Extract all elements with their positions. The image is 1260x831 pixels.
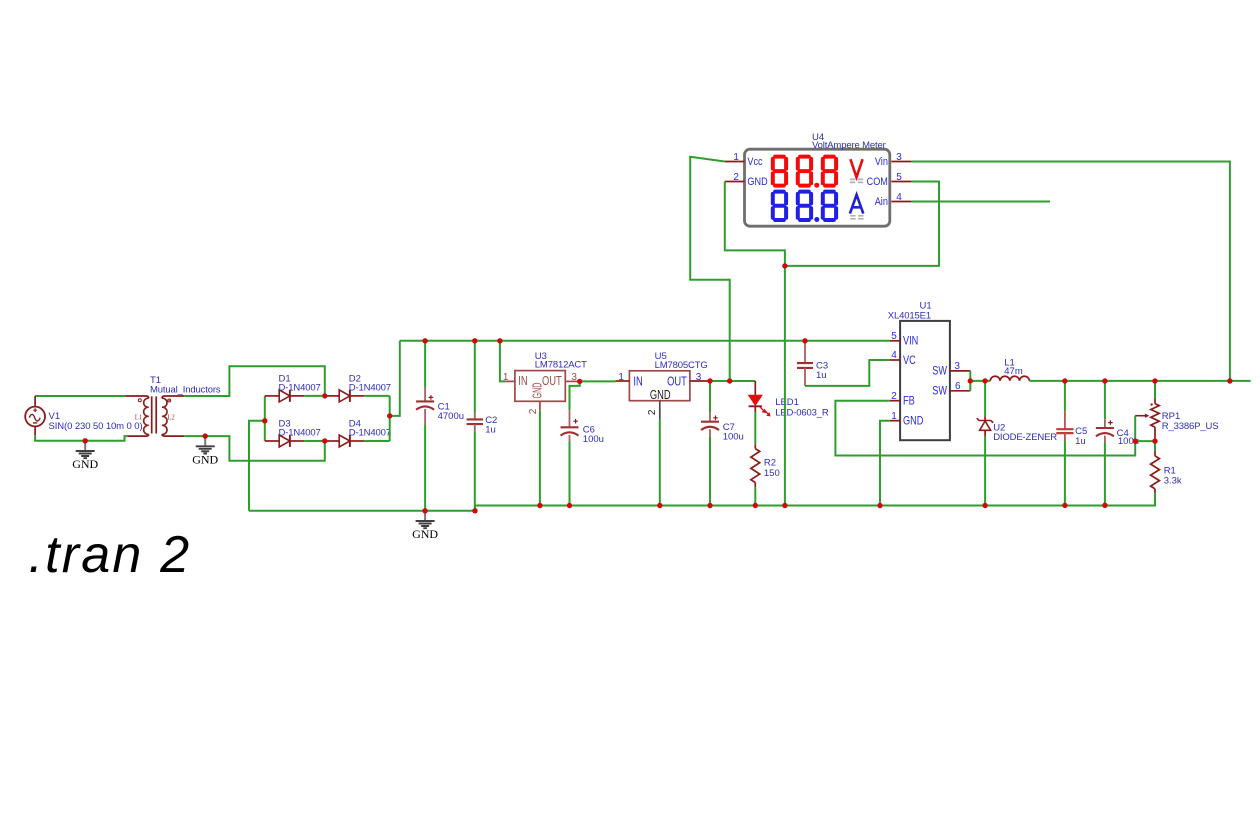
T1 secondary coil L2 [162,396,184,398]
svg-text:2: 2 [733,172,739,183]
junction at 579.7,381.4 [577,379,582,384]
wire T1 secondary bottom to bridge [184,436,324,461]
junction at 539.9,505.5 [537,503,542,508]
wire T1 secondary top to bridge [184,366,324,396]
svg-text:DIODE-ZENER: DIODE-ZENER [993,432,1057,443]
wire bridge minus to bottom rail [249,421,265,511]
svg-text:OUT: OUT [667,375,687,389]
svg-text:2: 2 [528,408,539,414]
wire C3 to U1 VC [805,360,890,386]
capacitor C7 100u [709,381,711,413]
junction at 425.1,340.8 [422,338,427,343]
converter U1 XL4015E1 box [900,321,950,440]
svg-text:COM: COM [867,176,888,188]
wire LED to R2 [754,413,756,445]
T1 phase dots [138,399,141,402]
wire V1 top to T1 primary [35,395,125,397]
svg-text:SW: SW [932,366,947,378]
svg-text:SW: SW [932,386,947,398]
svg-text:5: 5 [896,172,902,183]
svg-text:2: 2 [647,409,658,415]
svg-text:Vcc: Vcc [747,156,762,168]
svg-text:FB: FB [903,396,915,408]
junction at 805.0,340.8 [802,338,807,343]
svg-text:47m: 47m [1004,366,1023,377]
svg-text:R2: R2 [764,457,776,468]
svg-text:3: 3 [571,372,577,383]
junction at 324.8,441.0 [322,438,327,443]
svg-text:100u: 100u [723,432,744,443]
svg-text:GND: GND [192,452,218,466]
svg-text:IN: IN [633,375,642,389]
svg-text:4: 4 [891,350,897,361]
regulator U3 LM7812ACT [515,371,565,402]
svg-text:LED-0603_R: LED-0603_R [775,408,829,419]
svg-text:R_3386P_US: R_3386P_US [1162,421,1219,432]
svg-text:D-1N4007: D-1N4007 [349,428,391,439]
U1 pin 4 VC [890,359,900,361]
junction at 1104.9,381.0 [1102,378,1107,383]
U4 pin 2 GND [725,181,745,183]
wire U4 Ain stub [912,201,1050,203]
U4 pin 1 Vcc [725,161,745,163]
svg-text:GND: GND [903,416,924,428]
svg-text:1u: 1u [816,370,827,381]
svg-text:L1: L1 [135,415,143,422]
svg-text:L2: L2 [167,415,175,422]
ground GND (V1) [84,441,86,451]
svg-text:XL4015E1: XL4015E1 [888,310,931,321]
svg-text:IN: IN [518,375,527,389]
resistor R1 3.3k [1154,441,1156,451]
junction at 880.0,505.5 [877,503,882,508]
svg-text:VoltAmpere Meter: VoltAmpere Meter [812,140,886,151]
junction at 710.0,381.0 [707,378,712,383]
capacitor C2 1u [474,341,476,413]
U4 blue display 88.8 [773,192,786,220]
svg-text:Ain: Ain [875,196,888,208]
junction at 784.9,265.9 [782,263,787,268]
svg-text:GND: GND [747,176,767,188]
wire wiper to RP1 bottom [1135,440,1155,442]
junction at 85.2,440.8 [83,438,88,443]
svg-text:2: 2 [891,391,897,402]
inductor L1 47m [990,376,1029,381]
svg-text:5: 5 [891,331,897,342]
wire main DC rail [400,340,890,342]
meter U4 VoltAmpere Meter box [745,149,890,226]
ground GND (T1) [204,436,206,446]
junction at 324.8,395.9 [322,393,327,398]
potentiometer RP1 R_3386P_US [1154,381,1156,399]
junction at 205.2,436.1 [203,433,208,438]
junction at 729.7,381.0 [727,378,732,383]
svg-text:Vin: Vin [875,156,888,168]
wire rail jog [474,506,476,511]
svg-text:1u: 1u [1075,436,1086,447]
wire V1 bottom [35,435,128,441]
wire U3 out to U5 in [580,380,616,382]
svg-text:150: 150 [764,468,780,479]
svg-text:LM7812ACT: LM7812ACT [535,360,587,371]
svg-text:LED1: LED1 [775,397,799,408]
svg-text:6: 6 [955,381,961,392]
svg-text:3.3k: 3.3k [1164,475,1182,486]
svg-text:1: 1 [891,411,897,422]
wire bottom ground rail left [249,510,475,512]
junction at 474.8,340.8 [472,338,477,343]
resistor R2 150 [754,444,756,448]
svg-text:VIN: VIN [903,336,918,348]
U4 A symbol [850,195,863,214]
junction at 1104.9,505.3 [1102,503,1107,508]
ground GND (C1) [424,511,426,521]
svg-text:1: 1 [733,152,739,163]
wire U3 ground pin [539,411,541,506]
junction at 389.7,415.9 [387,413,392,418]
capacitor C5 1u [1064,381,1066,411]
junction at 425.1,510.8 [422,508,427,513]
diode D2 D-1N4007 [325,395,339,397]
U1 pin 1 GND [890,420,900,422]
svg-text:3: 3 [696,372,702,383]
svg-text:VC: VC [903,355,916,367]
bridge left vertical wire [264,396,266,441]
junction at 970.3,380.9 [968,378,973,383]
junction at 755.3,505.5 [753,503,758,508]
wire U1 GND to rail [880,421,890,506]
U4 pin 3 Vin [891,161,911,163]
wire L1 to output rail [1029,380,1250,382]
svg-text:1: 1 [503,372,509,383]
svg-text:4700u: 4700u [438,411,464,422]
wire rail to U3 input [500,341,505,382]
U4 red display 88.8 [773,157,786,186]
U1 pin 2 FB [890,400,900,402]
junction at 475.0,510.8 [472,508,477,513]
junction at 264.8,420.8 [262,418,267,423]
svg-text:3: 3 [896,152,902,163]
wire SW to L1 [970,380,990,382]
svg-text:1: 1 [618,372,624,383]
U4 pin 4 Ain [891,201,911,203]
junction at 1135.2,441.1 [1133,438,1138,443]
svg-text:.tran 2: .tran 2 [29,526,192,584]
svg-text:100u: 100u [583,434,604,445]
junction at 1064.9,505.4 [1062,503,1067,508]
wire SW pins tie [969,371,971,391]
wire U4 COM [785,182,939,266]
svg-text:LM7805CTG: LM7805CTG [655,360,708,371]
svg-text:4: 4 [896,192,902,203]
junction at 659.8,505.5 [657,503,662,508]
U1 pin 5 VIN [890,340,900,342]
svg-text:GND: GND [532,382,546,398]
svg-text:GND: GND [412,527,438,541]
svg-text:GND: GND [72,457,98,471]
junction at 710.0,505.5 [707,503,712,508]
svg-text:D-1N4007: D-1N4007 [349,383,391,394]
U4 pin 5 COM [891,181,911,183]
U1 pin 3 SW [950,370,970,372]
RP1 wiper arrow [1135,415,1145,417]
svg-text:D-1N4007: D-1N4007 [279,383,321,394]
junction at 985.1,380.9 [982,378,987,383]
svg-text:3: 3 [954,361,960,372]
wire U5 ground pin [659,420,661,506]
regulator U5 LM7805CTG [629,371,690,401]
capacitor C4 100u [1104,381,1106,419]
T1 core [152,396,157,433]
zener diode U2 DIODE-ZENER [984,381,986,417]
capacitor C6 100u [570,381,580,410]
junction at 499.9,340.8 [497,338,502,343]
wire U4 GND down [725,182,785,506]
svg-text:1u: 1u [485,424,496,435]
svg-text:Mutual_Inductors: Mutual_Inductors [150,385,221,396]
wire bridge plus output [390,341,400,441]
diode D3 D-1N4007 [265,440,279,442]
junction at 985.1,505.5 [982,503,987,508]
svg-text:D-1N4007: D-1N4007 [279,428,321,439]
U1 pin 6 SW [950,390,970,392]
svg-text:GND: GND [650,389,671,403]
junction at 1064.9,381.0 [1062,378,1067,383]
LED1 emission arrows [759,406,768,414]
wire bottom ground rail right [475,504,1155,506]
wire U4 Vcc to +5V node [690,157,730,381]
LED LED1 [754,381,756,395]
diode D4 D-1N4007 [325,440,339,442]
capacitor C3 1u [804,341,806,363]
wire RP1 wiper down [1134,416,1136,441]
junction at 1229.9,381.0 [1227,378,1232,383]
junction at 1155.0,381.0 [1152,378,1157,383]
voltage source V1 [25,407,45,427]
wire U4 Vin to output [912,162,1230,382]
capacitor C1 4700u [424,341,426,387]
junction at 569.5,505.5 [567,503,572,508]
transformer T1 Mutual_Inductors [125,396,149,398]
junction at 784.9,505.5 [782,503,787,508]
U4 V symbol [850,159,862,177]
wire U1 FB net [835,401,1135,456]
diode D1 D-1N4007 [265,395,279,397]
svg-text:SIN(0 230 50 10m 0 0): SIN(0 230 50 10m 0 0) [49,421,143,432]
wire U5 out node [710,380,755,382]
junction at 1155.0,441.1 [1152,438,1157,443]
